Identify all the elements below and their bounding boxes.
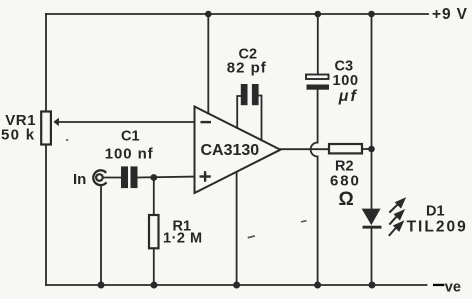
wire LED cathode to 0V rail [371,229,373,286]
speck artifact near 50k [66,139,68,141]
node dot rail C3 [314,282,321,289]
svg-text:In: In [73,171,86,188]
svg-text:+9 V: +9 V [432,6,468,23]
LED D1 cathode bar [363,226,382,229]
svg-text:82 pf: 82 pf [227,60,267,77]
op-amp U1 CA3130 triangle [195,107,281,194]
wire V+ pin from top rail [207,14,209,114]
resistor R2 [329,144,362,153]
wire In jack ground drop [100,185,102,285]
capacitor C2 right lead [259,96,262,141]
svg-text:Ω: Ω [339,189,354,210]
capacitor C2 plates [241,84,248,105]
wire C1 to node A [138,176,195,179]
svg-text:100: 100 [333,73,359,89]
label -ve dash [433,284,444,286]
capacitor C3 positive plate [306,75,329,80]
wire wiper to inverting input [58,121,195,123]
wire op-amp output [280,148,329,150]
node dot C1 R1 input junction [150,174,157,181]
svg-text:D1: D1 [426,204,445,220]
svg-text:C1: C1 [121,129,140,145]
wire VR1 bottom to 0V rail [45,145,47,286]
node dot top rail LED [368,11,375,18]
resistor R1 [149,215,159,248]
wire C3 below plates [317,90,319,143]
node dot top rail V+ [205,11,212,18]
svg-text:μf: μf [338,88,358,105]
wire LED branch from top rail [371,14,373,209]
node dot top rail C3 [315,11,322,18]
input jack In [93,170,106,185]
capacitor C3 negative plate [307,85,330,90]
speck artifact below triangle [248,235,256,238]
speck artifact near triangle [301,220,307,223]
node dot rail V- [233,282,240,289]
capacitor C2 left lead [237,96,241,128]
svg-text:CA3130: CA3130 [201,142,260,159]
wire C3 from top rail [317,14,319,75]
LED D1 triangle [362,209,381,226]
node dot rail In ground [98,282,105,289]
LED light arrow 3 [389,222,403,236]
LED light arrow 1 [389,199,404,213]
op-amp plus input symbol [200,171,211,182]
svg-text:TIL209: TIL209 [407,219,468,236]
svg-text:100 nf: 100 nf [105,146,154,163]
node dot R2 output B [368,146,375,153]
wire 0V bottom rail [46,284,427,286]
node dot rail LED [369,282,376,289]
VR1 wiper arrow [54,119,58,125]
wire crossover hop [311,143,318,157]
node dot rail R1 [151,282,158,289]
op-amp minus input symbol [201,121,212,123]
svg-text:50 k: 50 k [1,127,35,144]
wire In jack to C1 [104,177,122,179]
svg-text:680: 680 [330,173,361,190]
wire V- pin to 0V rail [236,173,238,285]
wire R1 bottom to 0V rail [153,248,155,285]
LED light arrow 2 [389,211,403,225]
wire C3 to 0V rail [317,157,319,286]
capacitor C1 plates [121,166,128,188]
wire R2 to node B [362,148,372,150]
svg-text:1·2 M: 1·2 M [163,231,203,247]
potentiometer VR1 [41,112,51,145]
svg-text:ve: ve [445,279,461,295]
wire node A down to R1 [153,178,155,216]
wire left vertical to VR1 [45,14,47,112]
wire +9V top rail [46,13,428,15]
